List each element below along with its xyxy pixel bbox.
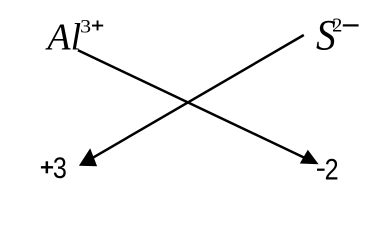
superscript minus sign xyxy=(343,24,359,26)
arrow shaft Al to -2 xyxy=(78,50,306,158)
superscript plus sign (horizontal bar) xyxy=(92,25,103,27)
svg-text:2: 2 xyxy=(332,15,342,37)
svg-text:3: 3 xyxy=(53,152,67,185)
arrow shaft S to +3 xyxy=(91,35,304,159)
result plus sign of +3 (vertical bar) xyxy=(46,161,49,173)
arrowhead pointing down-right xyxy=(300,150,319,164)
arrowhead pointing down-left xyxy=(79,148,97,166)
svg-text:Al: Al xyxy=(44,16,81,58)
svg-text:2: 2 xyxy=(325,154,339,187)
result minus sign of -2 xyxy=(317,169,325,171)
result plus sign of +3 (horizontal bar) xyxy=(41,166,53,168)
svg-text:3: 3 xyxy=(80,16,91,37)
superscript plus sign (vertical bar) xyxy=(97,21,99,31)
